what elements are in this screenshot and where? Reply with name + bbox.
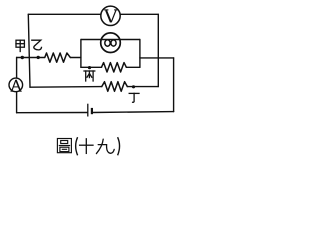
label bing (CJK drawn) [84,71,95,81]
wire bottom-right vertical [173,58,175,112]
node jia dot [21,56,24,59]
ammeter A1 letter [11,80,22,91]
wire bottom right [92,111,173,114]
wire right outer vertical [157,14,159,86]
voltmeter V1 circle [101,6,120,25]
node yi dot [37,56,40,59]
battery B1 [88,104,92,117]
wire bottom of T branch (left part) [30,86,102,89]
resistor ding zigzag [102,82,128,92]
label jia (CJK drawn) [16,40,24,51]
lamp filament loops [105,40,110,46]
wire bulb row chord [81,39,140,41]
wire left outer vertical (ammeter branch) [16,58,18,113]
caption: close paren [118,137,120,155]
wire bulb loop right vertical [139,40,141,68]
wire left inner vertical [28,14,30,87]
wire top (V branch) [28,13,158,15]
wire yi to bulb loop [70,57,81,59]
resistor bing zigzag [102,63,127,72]
caption: shi (CJK drawn) [80,139,93,154]
node bing dot [88,66,91,69]
resistor yi zigzag [45,53,71,62]
wire bing row right [126,66,140,68]
node ding dot [132,85,135,88]
caption: open paren [76,137,78,155]
caption: tu (CJK drawn) [57,139,71,153]
wire mid right [140,57,174,59]
label yi (CJK drawn) [32,40,42,50]
wire bulb loop left vertical [80,40,82,68]
wire jia-yi row [17,57,45,59]
label ding (CJK drawn) [129,93,139,102]
wire bing row left [81,66,102,68]
wire bottom left [17,112,88,114]
caption: jiu (CJK drawn) [96,139,114,153]
wire ding row right [127,86,158,88]
voltmeter V1 letter [104,10,117,22]
ammeter A1 circle [9,78,23,92]
lamp L1 circle [101,33,121,53]
